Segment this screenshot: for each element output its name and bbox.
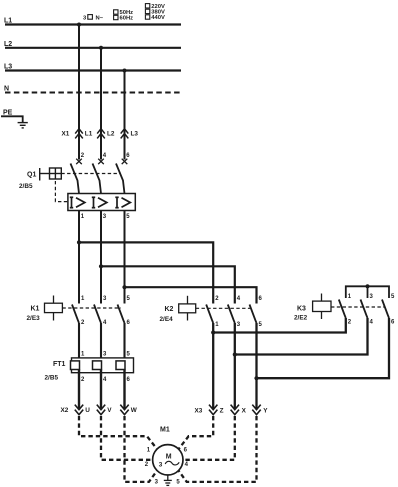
contactor K1 pole 1 — [72, 305, 79, 324]
overload relay FT1 box — [72, 358, 134, 373]
connector X1 pole L1 — [75, 129, 83, 139]
svg-text:3: 3 — [155, 480, 159, 486]
svg-text:Y: Y — [263, 408, 268, 415]
svg-text:3: 3 — [370, 294, 374, 300]
svg-text:2: 2 — [81, 377, 85, 383]
svg-text:N~: N~ — [96, 16, 104, 22]
connector X1 pole L3 — [121, 129, 129, 139]
wire K1 linkage dashed — [62, 307, 121, 309]
contactor K1 pole 2 — [94, 305, 101, 324]
svg-text:4: 4 — [103, 377, 107, 383]
connector X3 pole X — [231, 405, 239, 415]
breaker Q1 contact pole 2 — [93, 159, 104, 194]
svg-text:N: N — [4, 86, 9, 93]
svg-text:1: 1 — [81, 296, 85, 302]
svg-text:1: 1 — [81, 214, 85, 220]
wire phase 3 drop — [124, 71, 126, 160]
ground PE symbol — [18, 123, 28, 128]
svg-text:2/E3: 2/E3 — [27, 315, 41, 322]
wire branch 1 to K2 — [79, 242, 213, 303]
svg-text:2: 2 — [145, 462, 149, 468]
svg-text:1: 1 — [81, 352, 85, 358]
svg-text:5: 5 — [127, 352, 131, 358]
svg-text:2: 2 — [81, 153, 85, 159]
svg-text:K1: K1 — [31, 306, 40, 313]
overload FT1 heater element 3 — [116, 361, 125, 370]
wire X to motor pin4 dashed — [183, 416, 235, 460]
svg-text:5: 5 — [126, 214, 130, 220]
wire phase 1 drop — [78, 25, 80, 160]
motor M1 body — [153, 445, 183, 475]
svg-text:1: 1 — [215, 322, 219, 328]
label 3-phase N config — [83, 15, 104, 22]
wire phase 2 drop — [100, 48, 102, 160]
svg-text:X3: X3 — [195, 408, 203, 415]
svg-text:PE: PE — [3, 109, 13, 116]
svg-text:K3: K3 — [297, 306, 306, 313]
svg-text:V: V — [107, 407, 112, 414]
contactor K2 pole 3 — [250, 305, 257, 324]
svg-text:Z: Z — [220, 408, 224, 415]
connector X3 pole Z — [209, 405, 217, 415]
label sine wave — [165, 461, 179, 465]
contactor K3 pole 1 — [339, 300, 346, 319]
node K2 pole2 junction — [233, 352, 237, 356]
wire PE rail — [1, 109, 23, 122]
ground motor — [164, 475, 172, 485]
overload FT1 heater element 1 — [71, 361, 80, 370]
label 220V option — [145, 4, 165, 10]
svg-text:2: 2 — [81, 320, 85, 326]
wire Z to motor pin6 dashed — [179, 416, 214, 449]
svg-text:5: 5 — [176, 480, 180, 486]
connector X2 pole U — [75, 405, 83, 415]
breaker Q1 contact pole 1 — [71, 159, 82, 194]
svg-text:5: 5 — [391, 294, 395, 300]
svg-text:L3: L3 — [131, 130, 139, 137]
svg-text:W: W — [131, 407, 138, 414]
label 440V option — [145, 15, 165, 21]
svg-text:4: 4 — [103, 320, 107, 326]
svg-text:2/B5: 2/B5 — [19, 183, 33, 190]
svg-text:2: 2 — [215, 296, 219, 302]
svg-text:5: 5 — [259, 322, 263, 328]
wire K3 pole3 to K2 — [257, 318, 390, 378]
wire Q1 trip linkage dashed — [55, 181, 68, 202]
wire Q1 linkage dashed — [61, 173, 121, 175]
svg-text:1: 1 — [348, 294, 352, 300]
svg-text:2: 2 — [348, 320, 352, 326]
wire K1 pole3 to FT1 — [123, 323, 125, 359]
label I> element 1 — [70, 197, 85, 207]
wire U to motor pin1 dashed — [79, 416, 157, 449]
overload FT1 heater element 2 — [93, 361, 102, 370]
svg-text:4: 4 — [370, 320, 374, 326]
contactor K1 pole 3 — [118, 305, 125, 324]
svg-text:6: 6 — [127, 377, 131, 383]
svg-text:M: M — [166, 453, 172, 460]
label 60Hz option — [114, 15, 134, 21]
wire FT1 pole1 to X2 — [78, 370, 80, 410]
svg-text:FT1: FT1 — [53, 361, 66, 368]
wire L1 rail — [4, 18, 181, 25]
node K2 pole3 junction — [254, 376, 258, 380]
svg-text:4: 4 — [185, 462, 189, 468]
node junction L3 — [123, 69, 127, 73]
wire K2 pole1 to X3 — [212, 323, 214, 410]
wire FT1 pole2 to X2 — [100, 370, 102, 410]
node K2 pole1 junction — [211, 330, 215, 334]
svg-text:6: 6 — [126, 153, 130, 159]
wire FT1 pole3 to X2 — [123, 370, 125, 410]
contactor K2 coil — [179, 296, 196, 321]
breaker Q1 operator box — [40, 168, 62, 181]
wire K1 pole2 to FT1 — [100, 323, 102, 359]
node branch 3 junction — [122, 285, 126, 289]
node K3 bus junction — [365, 284, 369, 288]
svg-text:1: 1 — [147, 447, 151, 453]
connector X1 pole L2 — [97, 129, 105, 139]
svg-text:X2: X2 — [61, 407, 69, 414]
contactor K2 pole 1 — [206, 305, 213, 324]
svg-text:3: 3 — [103, 296, 107, 302]
svg-text:L1: L1 — [85, 130, 93, 137]
svg-text:3: 3 — [237, 322, 241, 328]
connector X3 pole Y — [252, 405, 260, 415]
node junction L1 — [77, 23, 81, 27]
svg-text:6: 6 — [259, 296, 263, 302]
wire V to motor pin2 dashed — [101, 416, 153, 460]
wire K2 linkage dashed — [196, 307, 253, 309]
wire K1 pole1 to FT1 — [78, 323, 80, 359]
svg-text:3: 3 — [83, 16, 87, 22]
label I> element 3 — [115, 197, 130, 207]
svg-text:3: 3 — [159, 462, 163, 469]
svg-text:2/E2: 2/E2 — [294, 315, 308, 322]
wire K3 pole1 to K2 — [213, 318, 346, 333]
wire phase 2 to K1 — [100, 211, 102, 304]
wire K3 top bus — [346, 286, 389, 298]
wire branch 3 to K2 — [125, 287, 257, 303]
svg-text:X1: X1 — [62, 130, 70, 137]
svg-text:6: 6 — [127, 320, 131, 326]
wire K3 pole2 to K2 — [235, 318, 368, 355]
label I> element 2 — [92, 197, 107, 207]
svg-text:L1: L1 — [4, 18, 12, 25]
svg-text:2/E4: 2/E4 — [160, 316, 174, 323]
svg-text:X: X — [242, 408, 247, 415]
wire L3 rail — [4, 64, 181, 71]
svg-text:L2: L2 — [107, 130, 115, 137]
wire K2 pole2 to X3 — [234, 323, 236, 410]
svg-text:6: 6 — [184, 447, 188, 453]
node junction L2 — [99, 46, 103, 50]
svg-text:L2: L2 — [4, 41, 12, 48]
node branch 2 junction — [99, 264, 103, 268]
connector X2 pole W — [120, 405, 128, 415]
connector X2 pole V — [97, 405, 105, 415]
svg-text:K2: K2 — [165, 306, 174, 313]
contactor K3 pole 3 — [382, 300, 389, 319]
svg-text:60Hz: 60Hz — [120, 16, 134, 22]
wire K2 pole3 to X3 — [255, 323, 257, 410]
svg-text:2/B5: 2/B5 — [45, 375, 59, 382]
wire phase 3 to K1 — [124, 211, 126, 304]
svg-text:3: 3 — [103, 352, 107, 358]
svg-text:4: 4 — [237, 296, 241, 302]
svg-text:5: 5 — [127, 296, 131, 302]
node branch 1 junction — [77, 240, 81, 244]
svg-text:440V: 440V — [151, 15, 165, 21]
wire W to motor pin3 dashed — [125, 416, 158, 482]
contactor K1 coil — [45, 296, 63, 321]
label 380V option — [145, 9, 165, 15]
breaker Q1 contact pole 3 — [116, 159, 127, 194]
breaker Q1 overload box — [68, 194, 135, 211]
svg-text:L3: L3 — [4, 64, 12, 71]
svg-text:3: 3 — [103, 214, 107, 220]
wire branch 2 to K2 — [101, 266, 235, 303]
label 50Hz option — [114, 10, 134, 16]
wire phase 1 to K1 — [78, 211, 80, 304]
wire L2 rail — [4, 41, 181, 48]
wire Y to motor pin5 dashed — [178, 416, 256, 482]
wire K3 linkage dashed — [331, 306, 386, 308]
svg-text:6: 6 — [391, 320, 395, 326]
contactor K2 pole 2 — [228, 305, 235, 324]
svg-text:M1: M1 — [160, 427, 170, 434]
contactor K3 pole 2 — [361, 300, 368, 319]
svg-text:U: U — [85, 407, 90, 414]
svg-text:4: 4 — [103, 153, 107, 159]
contactor K3 coil — [313, 294, 331, 320]
svg-text:Q1: Q1 — [27, 172, 36, 179]
wire N rail — [4, 86, 181, 93]
wire K3 pole2 stub — [367, 286, 369, 298]
